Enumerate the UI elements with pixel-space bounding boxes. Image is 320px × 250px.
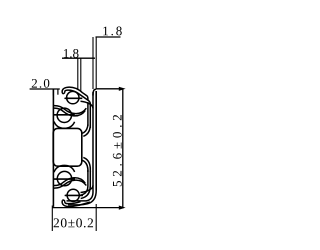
inner member bottom wrap inner L [67,192,94,201]
raceway cup under ball A [54,122,75,129]
dim line (extends to meet the vertical dim line) [52,207,123,209]
label 52.6+-0.2 [113,115,122,186]
ball D (bottom inner) [67,189,79,201]
label 1.8 (second) [64,49,79,58]
S-curve upper (bottom) [54,180,87,188]
top extension line [96,88,123,90]
dimension 2.0 (outer wall thickness) [30,89,60,96]
intermediate lower tab outer (below ball A right) [82,125,88,134]
raceway cup over ball C [54,165,75,172]
ball A equator [54,114,75,116]
inner member folded top cap [93,89,96,95]
S-curve lower (bottom) [54,178,85,186]
dimension 1.8 (top, inner member thickness) [93,37,121,89]
dimension 20+-0.2 bottom [52,204,123,231]
label 20+-0.2 [54,218,93,227]
ball C equator arrow [54,178,58,180]
intermediate upper tab outer (above ball C right) [82,160,88,169]
S-curve lower [54,108,85,116]
intermediate hook inner [65,90,90,104]
intermediate lower tab inner [83,126,90,137]
inner member tab cupping ball D topside [81,185,94,192]
ball A equator arrow [54,114,58,116]
intermediate hook outer (top), descends as diagonal into web [62,87,88,100]
bottom lip tip cap [62,200,65,201]
ball C (bottom outer) [57,171,71,185]
dim line [96,36,121,38]
extension line right [95,204,97,231]
extension line left [51,206,53,232]
intermediate upper tab inner [83,157,90,168]
ball C equator [54,178,75,180]
intermediate member bottom wrap inner L [80,170,88,195]
ball B equator arrow [64,97,68,99]
intermediate member web lower [87,169,89,172]
inner member tab cupping ball B underside [81,101,94,108]
ball D equator [65,194,83,196]
vertical dim line [122,89,124,208]
label 1.8 (top) [103,27,121,36]
inner member web inner surface [92,92,94,192]
ball B equator [65,97,83,99]
dimension 52.6+-0.2 vertical [96,89,123,208]
intermediate member web upper [87,102,89,126]
central web block [53,128,82,166]
inner member bottom wrap outer L [68,191,96,205]
S-curve upper (between balls) [54,106,87,114]
ball B (top inner) [67,91,79,103]
outer member left wall [52,89,54,207]
arrow bottom right [119,206,126,210]
extension line a [92,37,94,89]
intermediate member bottom wrap outer L [81,171,91,199]
dimension 1.8 (second, intermediate member thickness) [62,58,95,91]
outer member bottom lip outer (long diagonal to the right) [62,201,90,207]
ball D equator arrow [64,194,68,196]
extension line b [95,37,97,89]
label 2.0 [32,79,50,88]
arrow top [119,87,126,91]
outer member bottom lip inner [65,202,81,204]
ball A (top outer) [57,108,71,122]
hook tip cap [62,92,65,93]
inner member web (right rail) outer surface [95,91,97,191]
